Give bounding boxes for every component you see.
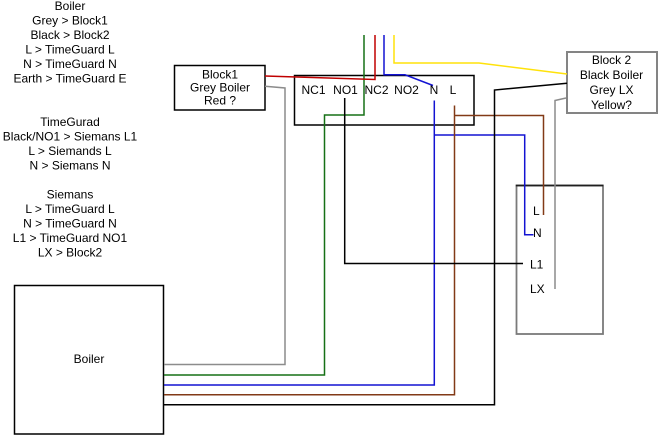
svg-text:L > TimeGuard L: L > TimeGuard L	[25, 43, 115, 57]
svg-text:LX: LX	[530, 282, 545, 296]
svg-text:TimeGurad: TimeGurad	[40, 115, 100, 129]
svg-text:L > Siemands L: L > Siemands L	[28, 144, 112, 158]
svg-text:Siemans: Siemans	[47, 188, 94, 202]
svg-text:Yellow?: Yellow?	[591, 98, 632, 112]
svg-text:NC2: NC2	[364, 83, 388, 97]
svg-text:Grey Boiler: Grey Boiler	[190, 81, 250, 95]
svg-text:L1 > TimeGuard NO1: L1 > TimeGuard NO1	[13, 231, 128, 245]
svg-text:L1: L1	[530, 258, 544, 272]
svg-text:Block 2: Block 2	[592, 53, 632, 67]
svg-text:Black Boiler: Black Boiler	[580, 68, 643, 82]
svg-text:Boiler: Boiler	[74, 352, 105, 366]
svg-text:Grey LX: Grey LX	[589, 83, 633, 97]
svg-text:N > TimeGuard N: N > TimeGuard N	[23, 57, 117, 71]
svg-text:L: L	[450, 83, 457, 97]
svg-text:N > TimeGuard N: N > TimeGuard N	[23, 217, 117, 231]
svg-text:L: L	[533, 204, 540, 218]
svg-text:Black > Block2: Black > Block2	[30, 28, 109, 42]
svg-text:N: N	[430, 83, 439, 97]
svg-text:N > Siemans N: N > Siemans N	[29, 159, 110, 173]
svg-text:Earth > TimeGuard E: Earth > TimeGuard E	[13, 72, 126, 86]
svg-text:Red ?: Red ?	[204, 94, 236, 108]
svg-text:LX > Block2: LX > Block2	[38, 246, 103, 260]
svg-text:NO1: NO1	[333, 83, 358, 97]
svg-text:Block1: Block1	[202, 68, 238, 82]
svg-text:N: N	[533, 226, 542, 240]
svg-text:L > TimeGuard L: L > TimeGuard L	[25, 202, 115, 216]
svg-text:Grey > Block1: Grey > Block1	[32, 14, 108, 28]
svg-text:NC1: NC1	[301, 83, 325, 97]
svg-text:Boiler: Boiler	[55, 0, 86, 13]
svg-text:NO2: NO2	[394, 83, 419, 97]
svg-text:Black/NO1 > Siemans L1: Black/NO1 > Siemans L1	[3, 130, 138, 144]
